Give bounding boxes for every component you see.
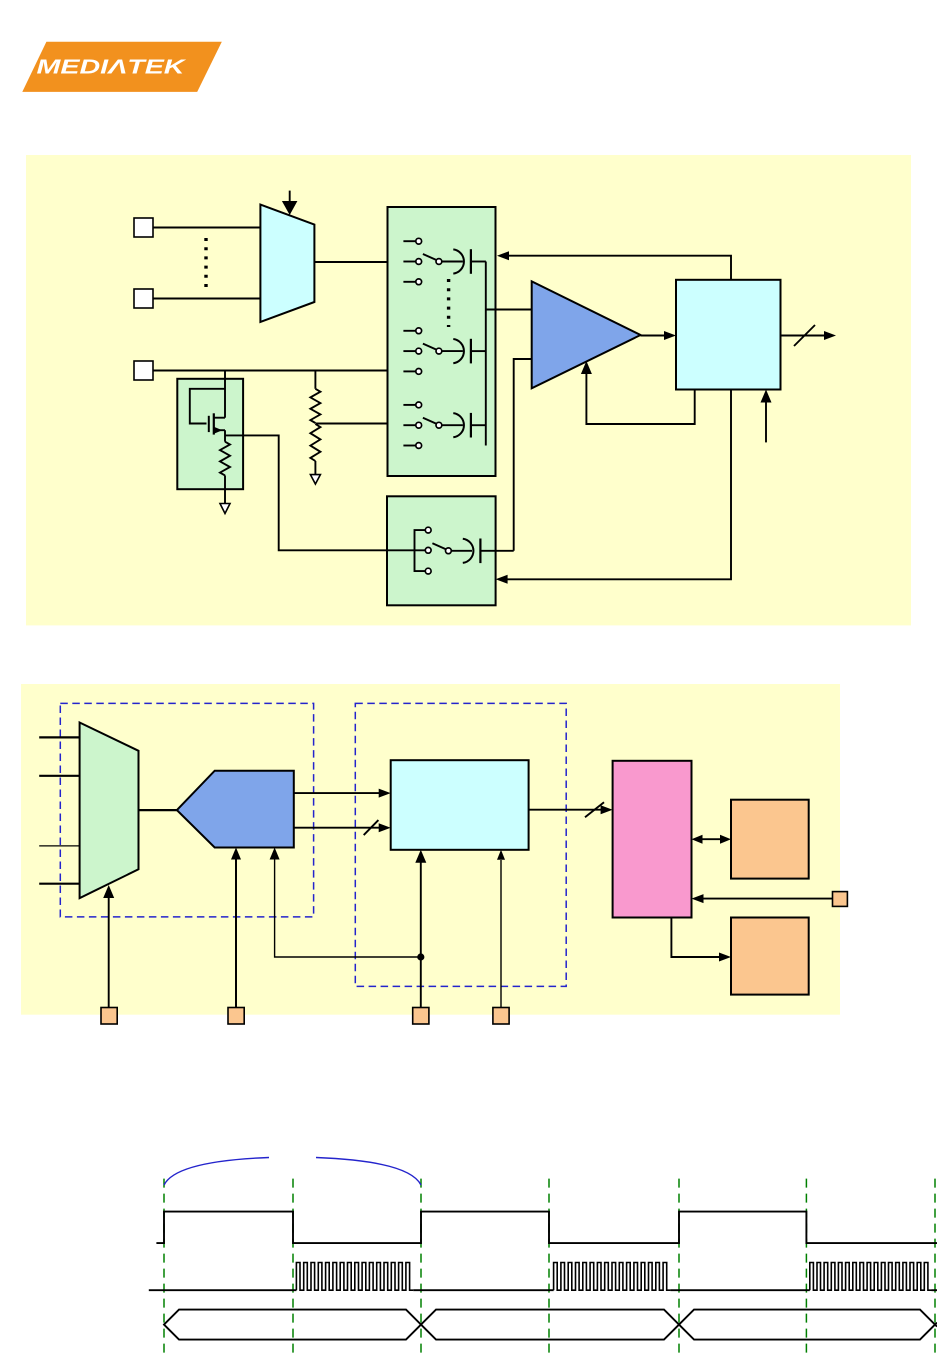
switch-cap array block bbox=[388, 207, 496, 476]
wire sample cap to op-amp input bbox=[514, 359, 532, 551]
wire pad3 to switch-cap array bbox=[153, 370, 388, 372]
ellipsis dots bbox=[447, 279, 450, 327]
diagram 1 background bbox=[26, 155, 911, 625]
wire pad1 to mux bbox=[153, 227, 260, 229]
clock wire B bbox=[235, 858, 237, 1008]
input pad 3 bbox=[134, 361, 153, 380]
switch terminal bot bbox=[403, 281, 415, 283]
mux M2 bbox=[80, 723, 139, 899]
ground under R3 bbox=[310, 475, 320, 484]
phase boundary line 6 bbox=[805, 1179, 807, 1356]
node junction bbox=[417, 953, 424, 960]
capacitor bbox=[453, 249, 464, 273]
switch terminal top bbox=[403, 330, 415, 332]
data bus segment 1 bbox=[164, 1310, 421, 1340]
data bus segment 2 bbox=[421, 1310, 679, 1340]
branch wire to decimator clock bbox=[275, 858, 421, 957]
switch terminal bot bbox=[403, 445, 415, 447]
input wire 4 bbox=[39, 883, 80, 885]
bidirectional bus bbox=[702, 838, 721, 840]
feedback wire to op-amp bbox=[586, 372, 694, 424]
wire pad2 to mux bbox=[153, 298, 260, 300]
switch arm bbox=[436, 348, 442, 354]
diagram 2 background bbox=[21, 684, 840, 1015]
capacitor C4 bbox=[451, 550, 472, 552]
wire bus to op-amp bbox=[486, 309, 532, 311]
switch terminal mid bbox=[403, 261, 415, 263]
MediaTek logo bbox=[22, 42, 222, 92]
sample switch block bbox=[387, 496, 496, 605]
output bus arrow with slash bbox=[781, 335, 826, 337]
wire op-amp to quantizer bbox=[641, 335, 666, 337]
switch terminal mid bbox=[403, 424, 415, 426]
phase boundary line 4 bbox=[548, 1179, 550, 1356]
wire mux to switch-cap array bbox=[314, 261, 387, 263]
clock wire D bbox=[500, 860, 502, 1008]
switch terminal mid bbox=[403, 350, 415, 352]
wire input to divider bbox=[314, 371, 316, 389]
wire source node bbox=[224, 430, 226, 442]
waveform phase clock bbox=[156, 1212, 937, 1244]
quantizer block bbox=[676, 280, 781, 390]
register bank 1 bbox=[731, 800, 809, 879]
phase boundary line 5 bbox=[678, 1179, 680, 1356]
cap output bus bbox=[485, 262, 487, 446]
input wire 3 bbox=[39, 845, 80, 847]
phase boundary line 1 bbox=[163, 1179, 165, 1356]
input wire 1 bbox=[39, 736, 80, 738]
bus to interface with slash bbox=[529, 809, 602, 811]
sample switch bracket bbox=[415, 530, 429, 571]
wire interface to register bank 2 bbox=[671, 918, 720, 958]
wire drain to input bbox=[224, 371, 226, 418]
switch arm bbox=[436, 259, 442, 265]
mux select arrow bbox=[289, 191, 291, 203]
data bus lower with slash bbox=[294, 827, 380, 829]
wire into sample switch bbox=[387, 549, 425, 551]
clock arrow into quantizer bbox=[765, 400, 767, 442]
sample switch arm bbox=[446, 548, 452, 554]
data formatter block bbox=[391, 760, 529, 850]
input wire 2 bbox=[39, 775, 80, 777]
dashed group box 2 bbox=[355, 703, 566, 986]
phase boundary line 3 bbox=[420, 1179, 422, 1356]
interface control block bbox=[613, 761, 692, 918]
clock wire A bbox=[108, 896, 110, 1008]
capacitor bbox=[453, 339, 464, 363]
wire to capacitor bbox=[442, 350, 463, 352]
clock pad A bbox=[101, 1008, 117, 1025]
dotted ellipsis between pads bbox=[204, 238, 207, 287]
register bank 2 bbox=[731, 918, 809, 995]
feedback wire to sample switch bbox=[507, 390, 731, 580]
clock pad D bbox=[493, 1008, 509, 1025]
transistor Q1 bbox=[208, 416, 210, 432]
switch terminal bot bbox=[403, 370, 415, 372]
capacitor bbox=[453, 413, 464, 437]
switch arm bbox=[436, 422, 442, 428]
feedback wire to array (DAC feedback) bbox=[508, 256, 731, 280]
wire to capacitor bbox=[442, 424, 463, 426]
op-amp U1 bbox=[532, 281, 641, 388]
phase boundary line 2 bbox=[292, 1179, 294, 1356]
dashed group box 1 bbox=[60, 703, 313, 917]
annotation arc left bbox=[164, 1158, 269, 1186]
data bus segment 3 bbox=[679, 1310, 935, 1340]
ground under R1 bbox=[220, 504, 230, 514]
clock pad B bbox=[228, 1008, 244, 1025]
resistor R3 bbox=[310, 424, 320, 461]
data wire upper bbox=[294, 792, 380, 794]
input pad 1 bbox=[134, 218, 153, 237]
wire source to sample switch bbox=[225, 435, 387, 550]
data bus segment 4 partial bbox=[935, 1323, 937, 1327]
mux M1 bbox=[260, 205, 314, 322]
resistor R2 bbox=[310, 389, 320, 423]
control input pad bbox=[833, 892, 848, 907]
switch terminal top bbox=[403, 404, 415, 406]
divider tap wire bbox=[315, 423, 387, 425]
svg-text:MEDIΛTEK: MEDIΛTEK bbox=[37, 56, 188, 79]
waveform burst clock bbox=[149, 1289, 297, 1291]
phase boundary line 7 bbox=[934, 1179, 936, 1356]
clock wire C bbox=[420, 860, 422, 1008]
resistor R1 bbox=[220, 442, 230, 476]
input pad 2 bbox=[134, 289, 153, 308]
wire to capacitor bbox=[442, 261, 463, 263]
wire mux to decimator bbox=[139, 809, 177, 811]
decimation filter block bbox=[177, 771, 294, 848]
clock pad C bbox=[413, 1008, 429, 1025]
annotation arc right bbox=[316, 1158, 421, 1186]
switch terminal top bbox=[403, 240, 415, 242]
transistor Q1 gate loop wire bbox=[190, 389, 225, 424]
bias transistor block bbox=[177, 379, 243, 489]
control input wire bbox=[703, 898, 834, 900]
